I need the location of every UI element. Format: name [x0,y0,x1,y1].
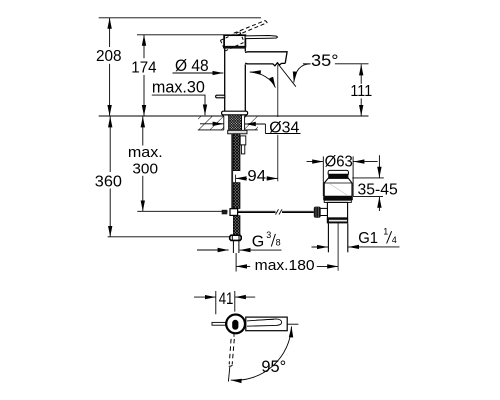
svg-text:max.: max. [128,144,163,161]
svg-text:300: 300 [132,161,158,178]
svg-text:95°: 95° [261,358,286,376]
svg-text:Ø63: Ø63 [325,154,353,171]
svg-text:8: 8 [276,237,281,247]
svg-text:4: 4 [392,235,397,245]
svg-text:41: 41 [219,289,234,308]
svg-text:Ø 48: Ø 48 [175,57,209,75]
svg-text:35-45: 35-45 [358,182,398,199]
svg-text:G1: G1 [358,230,378,247]
svg-text:3: 3 [266,230,271,240]
svg-text:174: 174 [131,60,156,77]
svg-text:1: 1 [383,227,388,237]
svg-text:max.30: max.30 [152,79,205,97]
svg-text:111: 111 [350,83,372,100]
svg-text:94: 94 [247,168,266,185]
svg-text:35°: 35° [311,51,339,70]
svg-text:360: 360 [95,173,122,190]
svg-text:208: 208 [96,48,122,65]
svg-text:max.180: max.180 [255,258,315,274]
svg-text:Ø34: Ø34 [269,119,299,136]
svg-text:G: G [252,233,264,250]
